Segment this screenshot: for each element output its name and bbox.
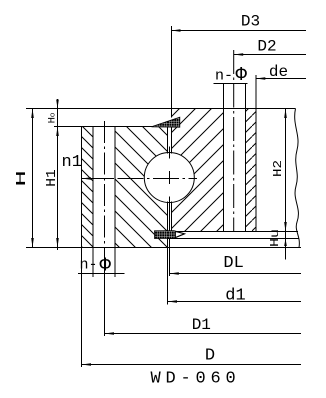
dimension line D3 bbox=[171, 30, 306, 32]
outer bolt hole centerline, extends up to D2 bbox=[233, 50, 235, 232]
ball (rolling element) white fill bbox=[144, 153, 194, 203]
leader line for top n-PHI bbox=[214, 83, 248, 85]
leader line for bottom n-PHI bbox=[78, 273, 125, 275]
svg-text:de: de bbox=[269, 63, 288, 81]
inner ring bottom line and support surface to break bbox=[26, 247, 301, 249]
outer bolt hole left wall with stub above bbox=[222, 83, 224, 232]
outer ring rim (right of bolt hole) hatched bbox=[246, 109, 256, 232]
svg-text:d1: d1 bbox=[225, 287, 245, 306]
svg-text:Hu: Hu bbox=[268, 229, 282, 247]
dimension line H2 (vertical) bbox=[285, 109, 287, 260]
inner bolt hole centerline, extends to D1 bbox=[104, 121, 106, 247]
svg-text:H: H bbox=[14, 170, 30, 187]
svg-text:H2: H2 bbox=[271, 160, 285, 177]
svg-text:D1: D1 bbox=[192, 316, 211, 334]
outer ring bottom line bbox=[171, 231, 298, 233]
inner bolt hole left wall bbox=[92, 127, 94, 278]
outer bolt hole right wall with stub above bbox=[245, 83, 247, 232]
svg-text:Φ: Φ bbox=[236, 64, 248, 86]
inner ring body hatched bbox=[115, 127, 168, 248]
outer ring bore face mid bbox=[170, 127, 172, 153]
svg-text:WD-060: WD-060 bbox=[151, 370, 241, 389]
break line (wavy) bbox=[295, 109, 300, 248]
svg-text:D3: D3 bbox=[241, 13, 260, 31]
inner ring right face lower, extends to d1 bbox=[167, 202, 169, 305]
svg-text:D: D bbox=[205, 347, 215, 366]
dimension line H1/H0 (vertical) bbox=[57, 99, 59, 250]
centerline leader with arrow (ball axis) bbox=[82, 177, 92, 180]
top surface line of outer ring and extension to left bbox=[26, 108, 296, 110]
inner ring bore face (left edge), also extension for D bbox=[81, 127, 83, 368]
inner ring top surface line and extension to left bbox=[54, 126, 168, 128]
dimension line d1 bbox=[168, 301, 302, 303]
ball outline bbox=[144, 153, 194, 203]
inner ring right face upper (gap side) bbox=[167, 127, 169, 153]
svg-text:n-: n- bbox=[215, 67, 233, 84]
inner ring web (left, between bore and bolt hole) hatched bbox=[82, 127, 94, 248]
top seal wedge bbox=[152, 117, 180, 127]
dimension line D1 bbox=[105, 333, 302, 335]
svg-text:n-: n- bbox=[80, 257, 98, 274]
outer ring outer face, extension for de bbox=[255, 75, 257, 232]
dimension line D2 bbox=[234, 54, 306, 56]
svg-text:DL: DL bbox=[223, 254, 243, 273]
outer ring body hatched bbox=[171, 109, 223, 232]
inner bolt hole right wall bbox=[114, 127, 116, 278]
outer ring bore face upper, extension for D3 bbox=[170, 26, 172, 117]
svg-text:n1: n1 bbox=[62, 153, 82, 172]
dimension line D bbox=[82, 364, 302, 366]
raceway centerline through ball, extends to DL bbox=[168, 147, 170, 159]
dimension line de bbox=[256, 78, 306, 80]
support plate line under outer ring bbox=[168, 238, 300, 240]
dimension line DL bbox=[169, 273, 301, 275]
svg-text:H1: H1 bbox=[44, 169, 60, 187]
bottom seal wedge bbox=[155, 231, 186, 239]
svg-text:D2: D2 bbox=[257, 38, 276, 56]
outer ring bore face lower bbox=[170, 202, 172, 232]
dimension line H (vertical) bbox=[32, 109, 34, 248]
